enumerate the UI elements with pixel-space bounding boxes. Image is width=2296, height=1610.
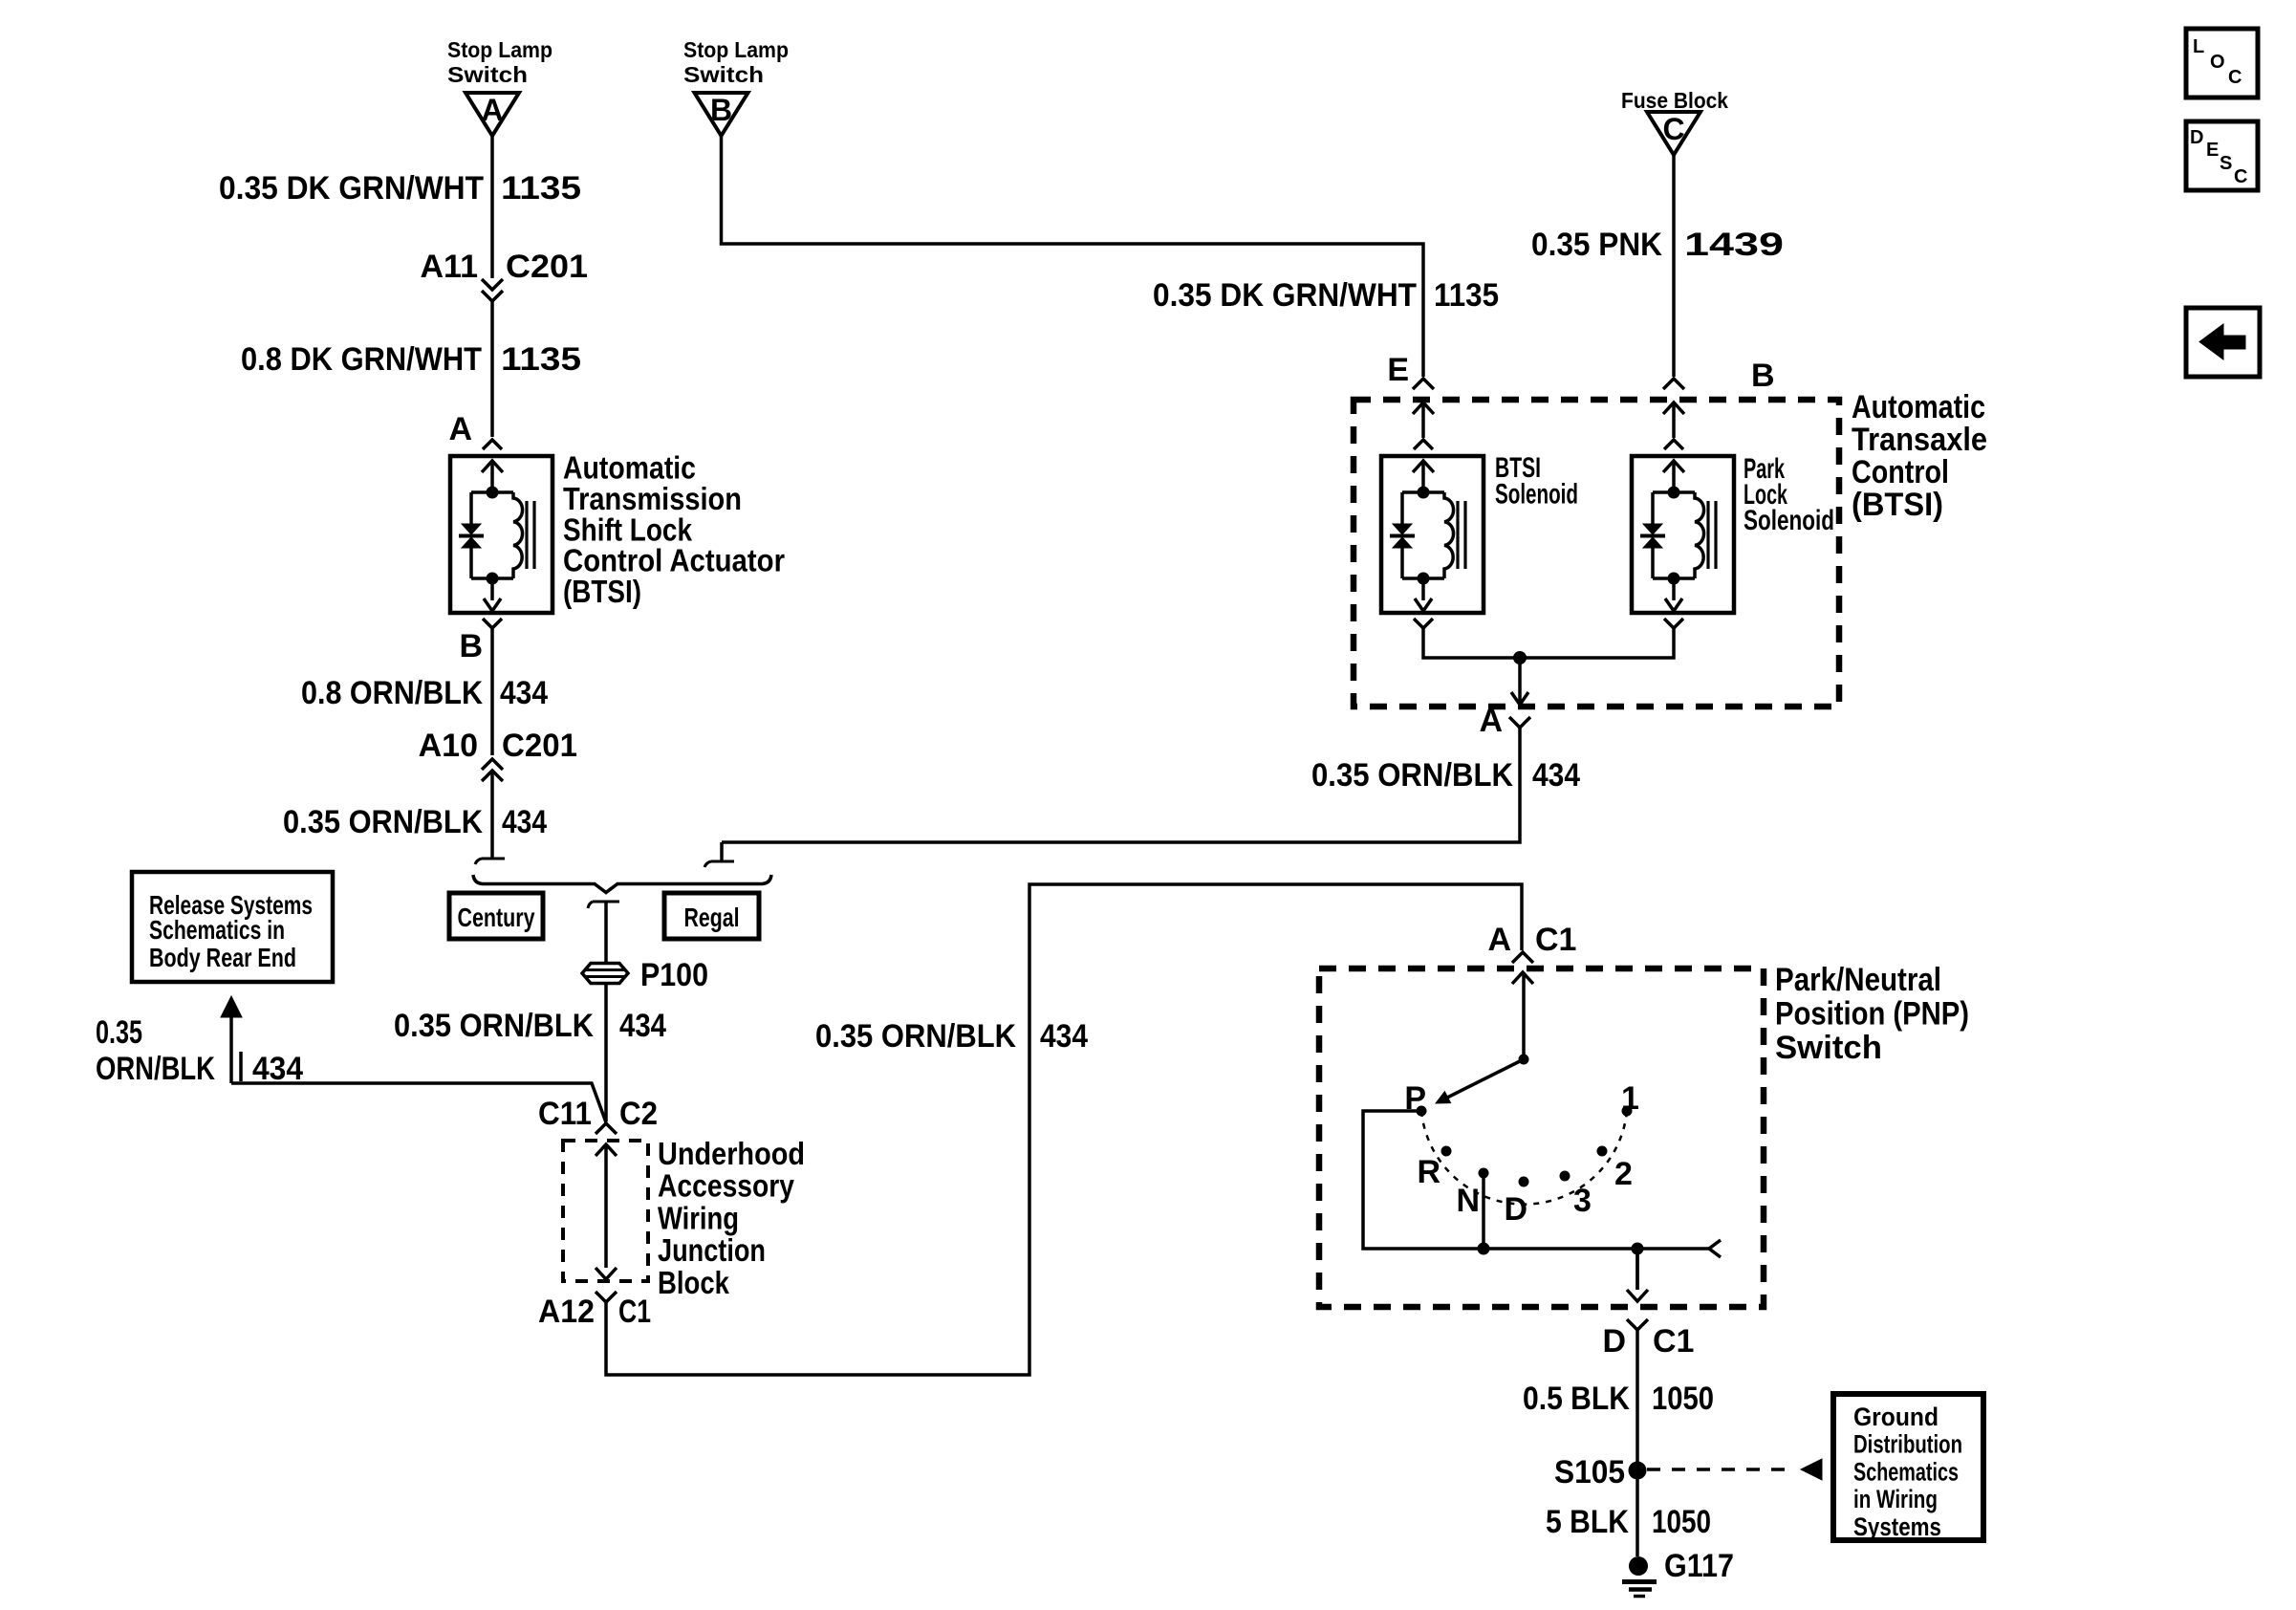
svg-text:B: B [1751,358,1775,394]
svg-text:Block: Block [658,1265,730,1300]
svg-text:434: 434 [619,1008,666,1044]
svg-text:Switch: Switch [683,62,764,87]
svg-text:C: C [2234,166,2247,187]
svg-text:S105: S105 [1554,1454,1625,1490]
svg-text:L: L [2193,36,2204,57]
svg-text:0.35 ORN/BLK: 0.35 ORN/BLK [394,1008,594,1044]
svg-text:E: E [2206,140,2219,161]
svg-text:Ground: Ground [1853,1403,1939,1431]
svg-text:P100: P100 [640,957,708,993]
svg-text:Stop Lamp: Stop Lamp [447,37,552,62]
svg-text:O: O [2210,52,2225,73]
svg-text:0.35 DK GRN/WHT: 0.35 DK GRN/WHT [219,170,484,207]
svg-text:0.35 ORN/BLK: 0.35 ORN/BLK [1311,757,1513,794]
svg-text:1135: 1135 [1434,277,1499,314]
svg-text:ORN/BLK: ORN/BLK [96,1051,215,1087]
svg-text:Century: Century [458,903,535,932]
svg-text:Distribution: Distribution [1853,1430,1962,1459]
svg-text:Switch: Switch [1775,1030,1882,1066]
svg-text:0.35 DK GRN/WHT: 0.35 DK GRN/WHT [1153,277,1417,314]
svg-text:Fuse Block: Fuse Block [1621,88,1728,113]
svg-text:434: 434 [500,675,548,711]
svg-text:Schematics: Schematics [1853,1457,1959,1486]
svg-text:G117: G117 [1664,1548,1734,1584]
svg-text:Junction: Junction [658,1232,766,1268]
svg-text:A10: A10 [419,728,478,764]
svg-text:Park/Neutral: Park/Neutral [1775,962,1941,998]
svg-text:0.35 ORN/BLK: 0.35 ORN/BLK [815,1018,1016,1055]
svg-text:D: D [1504,1191,1527,1228]
svg-text:A11: A11 [421,249,479,285]
svg-text:Schematics in: Schematics in [149,915,285,945]
svg-text:Wiring: Wiring [658,1200,739,1235]
svg-text:434: 434 [1532,757,1580,794]
svg-text:2: 2 [1614,1156,1633,1192]
svg-text:in Wiring: in Wiring [1853,1485,1938,1513]
svg-text:Switch: Switch [447,62,528,87]
svg-text:A12: A12 [538,1294,595,1330]
svg-text:C1: C1 [1535,922,1576,958]
svg-text:434: 434 [252,1051,303,1087]
svg-text:C201: C201 [506,249,588,285]
svg-text:Stop Lamp: Stop Lamp [683,37,789,62]
svg-text:A: A [481,93,503,127]
svg-text:Underhood: Underhood [658,1136,805,1171]
svg-text:0.35 ORN/BLK: 0.35 ORN/BLK [283,804,483,840]
svg-text:(BTSI): (BTSI) [563,574,641,609]
svg-text:A: A [1479,703,1503,739]
svg-text:D: D [1602,1323,1626,1360]
svg-text:Position (PNP): Position (PNP) [1775,996,1969,1033]
svg-text:C1: C1 [1653,1323,1694,1360]
svg-text:Accessory: Accessory [658,1168,795,1204]
svg-text:1050: 1050 [1652,1381,1714,1417]
svg-text:B: B [710,93,732,127]
svg-text:D: D [2190,127,2203,148]
svg-text:C201: C201 [502,728,577,764]
svg-text:R: R [1417,1154,1440,1190]
svg-text:Control: Control [1852,454,1949,490]
svg-text:B: B [459,628,483,664]
svg-text:Body Rear End: Body Rear End [149,943,296,972]
svg-text:S: S [2220,153,2232,174]
svg-text:Systems: Systems [1853,1512,1941,1541]
svg-text:1439: 1439 [1684,227,1784,263]
svg-text:3: 3 [1573,1183,1592,1219]
svg-text:Regal: Regal [684,903,740,932]
svg-text:5 BLK: 5 BLK [1546,1504,1629,1540]
svg-text:C11: C11 [538,1096,592,1132]
svg-text:C1: C1 [618,1294,651,1330]
svg-text:0.8 DK GRN/WHT: 0.8 DK GRN/WHT [241,341,482,378]
svg-text:0.5 BLK: 0.5 BLK [1523,1381,1630,1417]
svg-text:0.8 ORN/BLK: 0.8 ORN/BLK [301,675,483,711]
svg-text:0.35 PNK: 0.35 PNK [1531,227,1662,263]
svg-text:N: N [1456,1183,1480,1219]
svg-text:Solenoid: Solenoid [1495,479,1578,511]
svg-text:Transaxle: Transaxle [1852,422,1987,458]
svg-text:C2: C2 [619,1096,658,1132]
svg-text:E: E [1387,352,1409,388]
svg-text:C: C [1662,112,1684,146]
svg-text:1135: 1135 [501,170,581,207]
svg-text:0.35: 0.35 [96,1014,142,1051]
svg-text:A: A [1487,922,1511,958]
svg-text:434: 434 [502,804,547,840]
svg-text:Solenoid: Solenoid [1744,505,1834,536]
svg-text:1135: 1135 [501,341,581,378]
svg-text:434: 434 [1040,1018,1088,1055]
svg-text:Automatic: Automatic [1852,389,1985,425]
svg-text:A: A [448,411,472,447]
svg-text:(BTSI): (BTSI) [1852,487,1943,523]
svg-text:C: C [2228,67,2242,88]
svg-text:1: 1 [1621,1080,1639,1117]
svg-text:1050: 1050 [1652,1504,1711,1540]
